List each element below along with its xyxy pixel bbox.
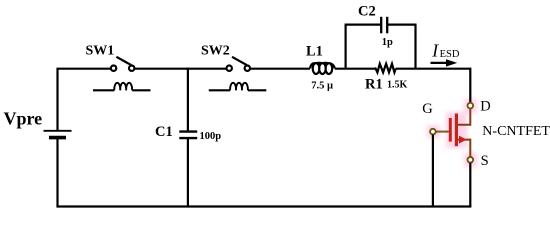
svg-text:S: S bbox=[481, 153, 489, 169]
pin S node circle bbox=[468, 157, 474, 163]
wire C1 to bottom rail bbox=[187, 138, 189, 207]
transistor source lead with arrow bbox=[458, 136, 470, 157]
transistor gate lead bbox=[436, 131, 449, 133]
wire L1 to node A bbox=[335, 68, 376, 70]
wire SW2 to L1 bbox=[250, 68, 310, 70]
svg-text:1p: 1p bbox=[382, 37, 393, 48]
svg-text:D: D bbox=[480, 98, 490, 114]
wire left rail below battery to ground rail bbox=[56, 138, 58, 208]
svg-text:SW1: SW1 bbox=[86, 44, 115, 59]
svg-text:L1: L1 bbox=[306, 44, 323, 60]
svg-text:1.5K: 1.5K bbox=[387, 80, 408, 91]
highlight halo around MOSFET body bbox=[427, 99, 477, 167]
pin D node circle bbox=[468, 103, 474, 109]
svg-text:Vpre: Vpre bbox=[4, 108, 43, 128]
capacitor C1 bbox=[179, 132, 197, 139]
relay coil of SW2 bbox=[209, 83, 266, 90]
wire C2 top right bbox=[388, 24, 417, 26]
battery source Vpre bbox=[44, 131, 72, 138]
node B: C2 branch right vertical wire bbox=[414, 25, 416, 69]
wire gate to bottom rail bbox=[432, 135, 434, 208]
switch SW2 bbox=[227, 57, 251, 71]
svg-text:G: G bbox=[422, 101, 433, 117]
wire top-left from source Vpre to SW1 bbox=[58, 69, 111, 130]
wire R1 to drain corner bbox=[396, 69, 471, 103]
node C1 branch vertical wire bbox=[187, 68, 189, 131]
wire C2 top left bbox=[345, 24, 381, 26]
svg-text:100p: 100p bbox=[200, 131, 222, 142]
inductor L1 bbox=[310, 63, 335, 74]
svg-text:C2: C2 bbox=[358, 4, 376, 20]
resistor R1 bbox=[375, 64, 396, 73]
svg-text:ESD: ESD bbox=[440, 49, 460, 60]
capacitor C2 bbox=[381, 17, 387, 34]
svg-text:I: I bbox=[431, 41, 439, 61]
svg-text:R1: R1 bbox=[365, 76, 383, 92]
bottom rail wire bbox=[57, 205, 472, 207]
wire SW1 to C1 node to SW2 bbox=[135, 68, 227, 70]
svg-text:C1: C1 bbox=[155, 124, 173, 140]
svg-text:SW2: SW2 bbox=[201, 44, 230, 59]
node A: C2 branch left vertical wire bbox=[345, 25, 347, 69]
svg-text:N-CNTFET: N-CNTFET bbox=[482, 124, 550, 139]
transistor channel bar bbox=[455, 114, 458, 147]
svg-text:7.5 µ: 7.5 µ bbox=[311, 81, 333, 92]
switch SW1 bbox=[111, 57, 134, 71]
transistor U1 N-CNTFET drain lead bbox=[458, 103, 470, 125]
wire source to bottom rail bbox=[469, 163, 471, 207]
relay coil of SW1 bbox=[93, 83, 151, 90]
pin G node circle bbox=[430, 129, 436, 135]
current arrow I ESD bbox=[431, 59, 458, 66]
transistor gate bar bbox=[449, 118, 452, 142]
